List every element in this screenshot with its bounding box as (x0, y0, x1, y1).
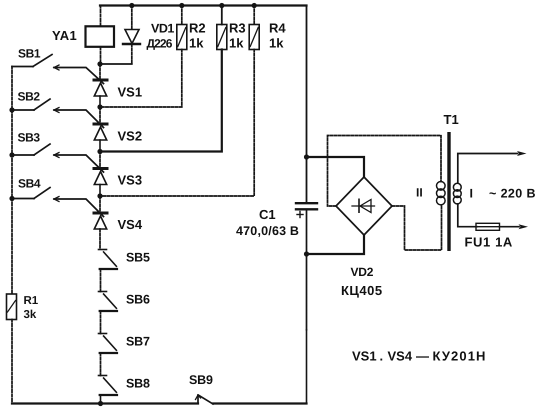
wire left bus below R1 (11, 320, 13, 404)
svg-text:VS1.VS4—КУ201Н: VS1.VS4—КУ201Н (352, 349, 487, 364)
thyristor VS1 (94, 80, 107, 96)
wire VS2 anode stub (99, 107, 101, 124)
junction dot VS3 cathode (97, 193, 102, 198)
svg-text:FU1 1A: FU1 1A (465, 235, 513, 250)
switch SB1 (12, 55, 104, 84)
wire R3 bottom to VS2 cathode (100, 50, 222, 152)
wire left bus vertical (11, 67, 13, 295)
resistor R2 (177, 25, 187, 50)
junction dot VS2 cathode (97, 149, 102, 154)
wire SB6-SB7 (100, 311, 102, 334)
svg-text:YA1: YA1 (52, 28, 77, 43)
resistor R3 (217, 25, 227, 50)
junction dot R3 top (219, 3, 224, 8)
junction dot SB2 (9, 107, 14, 112)
svg-text:VS1: VS1 (118, 85, 143, 100)
svg-text:VS2: VS2 (118, 129, 143, 144)
wire VS1 cathode stub (99, 96, 101, 107)
svg-text:SB8: SB8 (126, 377, 150, 391)
svg-text:1k: 1k (189, 36, 204, 51)
svg-text:SB2: SB2 (18, 90, 41, 104)
wire C1 to bridge top (307, 157, 365, 177)
thyristor VS3 (94, 169, 107, 185)
wire C1 to bridge bottom (307, 235, 365, 254)
wire R4 bottom to VS3 cathode (100, 50, 254, 197)
transformer T1 winding I (453, 183, 461, 204)
svg-text:VS4: VS4 (118, 217, 143, 232)
wire SB8 to bottom bus (100, 395, 102, 404)
switch SB6 (99, 292, 118, 312)
svg-text:Т1: Т1 (444, 112, 459, 127)
svg-text:470,0/63 В: 470,0/63 В (236, 224, 299, 238)
svg-text:R4: R4 (269, 21, 286, 36)
wire SB5-SB6 (100, 269, 102, 292)
diode VD1 (123, 30, 140, 45)
svg-text:SB6: SB6 (126, 293, 150, 307)
junction dot C1 top node (304, 154, 309, 159)
wire right vertical lower solid (mid to bottom bus) (306, 330, 308, 404)
wire R2 top stub (181, 6, 183, 25)
wire bridge right AC to primary bottom (392, 206, 442, 250)
switch SB7 (99, 334, 118, 354)
svg-text:VS3: VS3 (118, 173, 143, 188)
arrow secondary top (517, 151, 527, 156)
svg-text:SB7: SB7 (126, 335, 150, 349)
wire VS4 cathode to SB5 (99, 229, 101, 250)
junction dot VD1 top (129, 3, 134, 8)
svg-text:1k: 1k (269, 36, 284, 51)
svg-text:~ 220 В: ~ 220 В (489, 187, 536, 201)
switch SB2 (12, 99, 104, 128)
wire VS3 anode stub (99, 152, 101, 169)
arrow secondary bottom (519, 224, 529, 229)
wire VS1 anode stub (99, 64, 101, 80)
switch SB5 (99, 250, 118, 270)
transformer T1 winding II (437, 182, 446, 205)
wire VD1 top stub (131, 6, 133, 30)
switch SB3 (12, 144, 104, 172)
junction dot SB3 (9, 152, 14, 157)
wire right vertical upper (top bus corner down to C1) (306, 6, 308, 204)
bridge rectifier VD2 (336, 177, 392, 235)
junction dot bottom bus (98, 401, 103, 406)
fuse FU1 (476, 223, 500, 230)
svg-text:SB4: SB4 (18, 177, 41, 191)
wire fuse to arrow (500, 226, 520, 228)
thyristor VS2 (94, 124, 107, 140)
svg-text:R1: R1 (24, 295, 39, 307)
wire YA1 top stub (100, 6, 102, 27)
wire R3 top stub (221, 6, 223, 25)
svg-text:VD1: VD1 (151, 22, 174, 36)
wire secondary top (458, 154, 518, 184)
relay YA1 (86, 26, 115, 47)
junction dot node A (97, 61, 102, 66)
junction dot R2 top (179, 3, 184, 8)
wire R4 top stub (253, 6, 255, 25)
wire bottom bus right segment (213, 402, 307, 404)
transformer T1 core (447, 132, 450, 251)
switch SB8 (99, 376, 118, 396)
wire right vertical lower dashed (C1 to mid) (306, 210, 308, 331)
wire VS2 cathode stub (99, 140, 101, 152)
thyristor VS4 (94, 213, 107, 229)
switch SB9 (196, 395, 214, 404)
wire VS4 anode stub (99, 196, 101, 213)
svg-text:1k: 1k (229, 36, 244, 51)
wire secondary bottom to fuse (458, 204, 477, 227)
junction dot VS1 cathode (97, 104, 102, 109)
junction dot C1 bottom node (304, 251, 309, 256)
wire bottom bus left segment (12, 402, 198, 404)
wire top bus (100, 4, 307, 6)
svg-text:SB3: SB3 (18, 131, 41, 145)
svg-text:SB9: SB9 (189, 373, 213, 387)
wire YA1 bottom stub (100, 47, 102, 64)
svg-text:VD2: VD2 (351, 265, 374, 279)
capacitor C1 (296, 203, 317, 217)
wire R2 bottom to VS1 cathode (100, 50, 182, 108)
svg-text:3k: 3k (24, 309, 37, 321)
switch SB4 (12, 188, 104, 217)
wire VD1 bottom stub (131, 44, 133, 64)
junction dot SB4 (9, 196, 14, 201)
resistor R1 (7, 294, 17, 320)
wire VS3 cathode stub (99, 185, 101, 197)
resistor R4 (249, 25, 259, 50)
wire node A horizontal (YA1/VD1 to VS1 anode) (100, 63, 132, 65)
svg-text:SB1: SB1 (18, 47, 41, 61)
svg-text:SB5: SB5 (126, 251, 150, 265)
wire bridge left AC to primary top (328, 136, 442, 207)
svg-text:I: I (470, 187, 473, 201)
wire SB7-SB8 (100, 353, 102, 376)
junction dot R4 top (252, 3, 257, 8)
svg-text:R3: R3 (229, 21, 246, 36)
svg-text:C1: C1 (259, 207, 276, 222)
svg-text:КЦ405: КЦ405 (341, 283, 383, 298)
svg-text:R2: R2 (189, 21, 206, 36)
svg-text:II: II (416, 186, 423, 200)
svg-text:Д226: Д226 (147, 37, 173, 51)
